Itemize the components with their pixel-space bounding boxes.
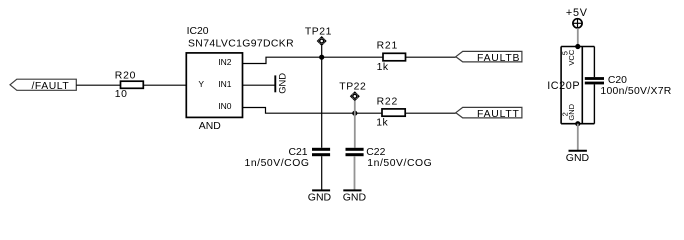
ground (below C21) [308, 190, 332, 203]
wire IC20P to ground (gray) [577, 124, 579, 151]
svg-text:GND: GND [567, 103, 576, 120]
net flag /FAULT [10, 79, 76, 92]
wire IN0 stub [243, 108, 383, 114]
svg-text:VCC: VCC [567, 49, 576, 65]
op IC20P power box [547, 47, 594, 124]
wire C21 to ground [321, 156, 323, 190]
resistor R21 [377, 41, 406, 73]
wire TP21 stem down through junction to C21 [321, 46, 323, 148]
resistor R22 [376, 96, 405, 128]
ground (below IC20P) [566, 151, 590, 164]
svg-text:1k: 1k [376, 117, 388, 128]
svg-text:SN74LVC1G97DCKR: SN74LVC1G97DCKR [188, 39, 294, 50]
svg-text:FAULTB: FAULTB [477, 53, 520, 64]
wire C22 to ground (gray) [354, 156, 356, 190]
svg-text:1n/50V/COG: 1n/50V/COG [367, 158, 432, 169]
svg-text:R20: R20 [115, 71, 136, 82]
node junction TP22/bottom net [352, 111, 357, 116]
svg-text:IC20P: IC20P [547, 80, 580, 92]
svg-text:AND: AND [199, 121, 221, 132]
svg-text:IC20: IC20 [187, 26, 209, 37]
svg-text:C21: C21 [288, 147, 307, 158]
capacitor C20 [585, 75, 672, 97]
svg-text:10: 10 [115, 89, 128, 100]
capacitor C22 [346, 147, 433, 169]
svg-text:/FAULT: /FAULT [32, 81, 70, 92]
op IC20 AND gate box [186, 26, 294, 132]
svg-text:1n/50V/COG: 1n/50V/COG [245, 158, 310, 169]
svg-text:R22: R22 [377, 96, 398, 107]
resistor R20 [115, 71, 144, 100]
svg-text:Y: Y [198, 79, 204, 89]
wire TP22 stem (gray) down to junction and C22 [354, 101, 356, 148]
svg-text:GND: GND [308, 192, 332, 204]
svg-text:IN2: IN2 [218, 57, 232, 67]
testpoint TP21 [305, 27, 332, 46]
wire +5V stem (gray) [577, 28, 579, 46]
svg-text:C20: C20 [608, 75, 627, 86]
node junction +5V [575, 44, 580, 49]
svg-text:GND: GND [343, 192, 367, 204]
net flag FAULTT [456, 107, 522, 120]
supply +5V [566, 7, 588, 28]
capacitor C21 [245, 147, 331, 169]
svg-text:TP22: TP22 [339, 81, 366, 92]
wire C20 branch [593, 47, 595, 78]
svg-text:FAULTT: FAULTT [477, 109, 520, 120]
node junction TP21/top net [319, 55, 324, 60]
svg-text:IN1: IN1 [218, 79, 232, 89]
node junction IC20P GND [575, 121, 580, 126]
net flag FAULTB [456, 51, 522, 64]
wire IN1 stub to GND [243, 84, 275, 86]
svg-text:GND: GND [566, 152, 590, 164]
svg-text:1k: 1k [377, 62, 389, 73]
svg-text:100n/50V/X7R: 100n/50V/X7R [600, 86, 671, 97]
svg-text:R21: R21 [377, 41, 398, 52]
testpoint TP22 [339, 81, 366, 101]
svg-text:IN0: IN0 [218, 101, 232, 111]
svg-text:TP21: TP21 [305, 27, 332, 38]
ground (rotated, at IN1) [275, 73, 287, 94]
wire net /FAULT to R20 [76, 84, 120, 86]
wire R20 to IC20 pin Y [143, 84, 186, 86]
wire R22 to FAULTT [406, 112, 456, 114]
svg-text:GND: GND [277, 73, 288, 94]
wire IN2 stub [243, 57, 384, 63]
ground (below C22) [343, 190, 367, 203]
svg-text:+5V: +5V [566, 7, 588, 19]
wire R21 to FAULTB [406, 56, 456, 58]
svg-text:C22: C22 [366, 147, 385, 158]
